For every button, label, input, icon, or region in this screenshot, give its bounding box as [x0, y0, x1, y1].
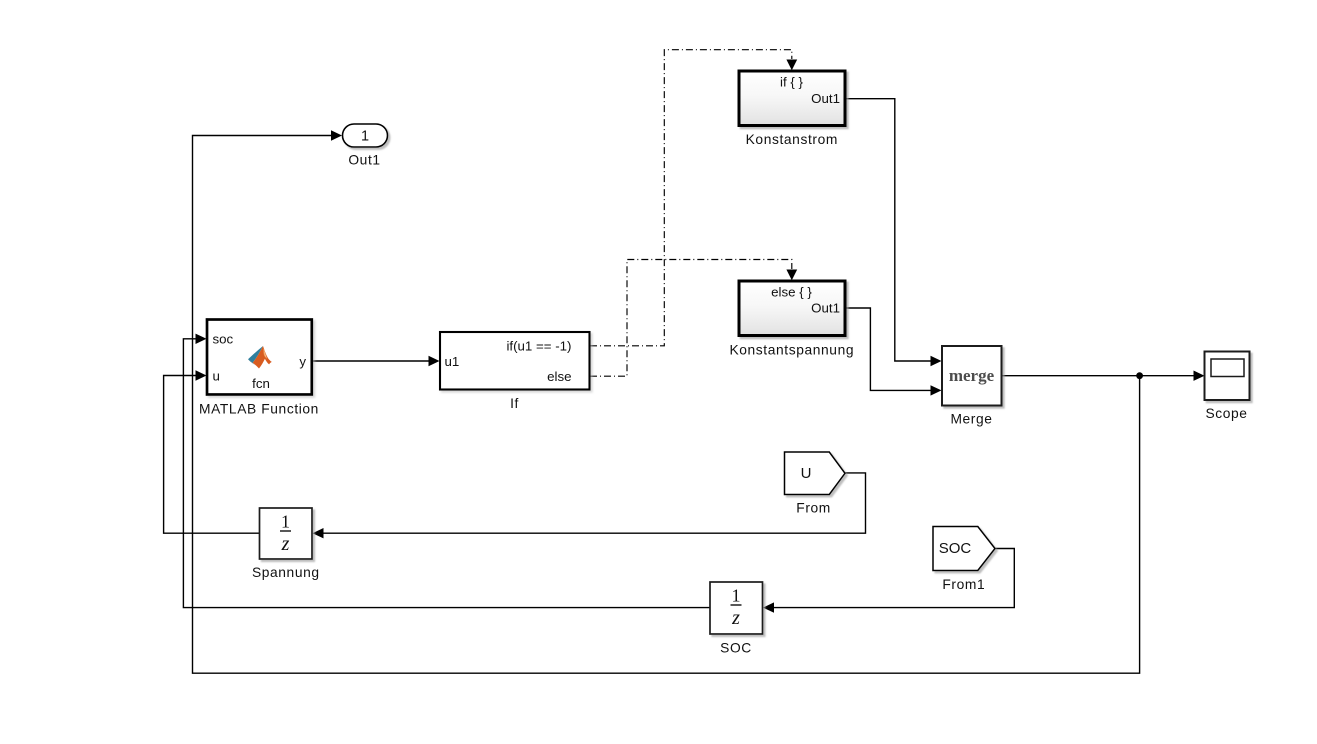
from tag From (U) [785, 452, 846, 495]
svg-text:if(u1 == -1): if(u1 == -1) [506, 338, 571, 353]
wire SOC output to MATLAB Function soc [183, 334, 709, 608]
svg-text:Out1: Out1 [348, 153, 380, 168]
svg-text:soc: soc [213, 332, 234, 347]
svg-text:u: u [213, 369, 220, 384]
svg-text:y: y [299, 354, 306, 369]
icon MATLAB logo [248, 346, 272, 369]
block MATLAB Function U1 [207, 320, 312, 395]
svg-text:From: From [796, 501, 831, 516]
svg-text:1: 1 [361, 129, 369, 145]
svg-text:if { }: if { } [780, 75, 803, 90]
svg-text:Scope: Scope [1205, 406, 1247, 421]
svg-text:1: 1 [732, 586, 741, 606]
svg-text:SOC: SOC [939, 540, 972, 557]
svg-text:1: 1 [281, 512, 290, 532]
svg-text:u1: u1 [445, 354, 460, 369]
svg-text:MATLAB Function: MATLAB Function [199, 402, 319, 417]
block SOC (unit delay 1/z) [710, 582, 763, 634]
block Spannung (unit delay 1/z) [260, 508, 313, 559]
svg-text:From1: From1 [942, 577, 985, 592]
outport block Out1 [343, 124, 388, 147]
svg-text:Konstanstrom: Konstanstrom [746, 132, 838, 147]
svg-text:Out1: Out1 [811, 91, 840, 106]
svg-text:Merge: Merge [950, 411, 992, 426]
block If [440, 332, 590, 390]
junction node on Merge output [1136, 372, 1143, 379]
wire MATLAB Function y to If u1 [312, 356, 440, 366]
block Konstanstrom [739, 71, 845, 126]
block Scope [1205, 352, 1250, 401]
block Merge [942, 346, 1002, 406]
wire Konstanstrom Out1 to Merge input 1 [846, 99, 942, 367]
svg-text:else: else [547, 369, 571, 384]
block Konstantspannung [739, 281, 845, 336]
svg-text:fcn: fcn [252, 376, 270, 391]
from tag From1 (SOC) [933, 527, 995, 571]
wire Spannung output to MATLAB Function u [164, 370, 259, 533]
wire From tag to Spannung input [313, 473, 866, 539]
wire From1 tag to SOC input [763, 549, 1014, 613]
svg-text:If: If [510, 396, 519, 411]
wire Konstantspannung Out1 to Merge input 2 [846, 308, 942, 396]
svg-text:Out1: Out1 [811, 301, 840, 316]
svg-text:else { }: else { } [771, 285, 812, 300]
svg-text:merge: merge [949, 366, 995, 385]
svg-text:z: z [731, 607, 740, 629]
svg-text:Spannung: Spannung [252, 565, 320, 580]
wire Merge output to Scope [1002, 371, 1205, 381]
wire feedback branch to Out1 [193, 130, 1140, 673]
svg-text:z: z [281, 533, 290, 555]
svg-text:Konstantspannung: Konstantspannung [729, 343, 854, 358]
svg-text:SOC: SOC [720, 641, 752, 656]
wire If if-output to Konstanstrom action port (dash-dot) [590, 50, 797, 346]
wire If else-output to Konstantspannung action port (dash-dot) [590, 260, 797, 377]
svg-text:U: U [801, 465, 812, 482]
